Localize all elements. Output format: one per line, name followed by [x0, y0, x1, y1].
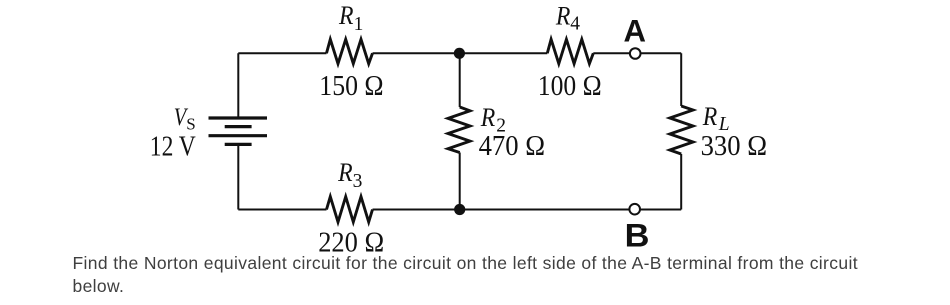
svg-text:R: R	[480, 103, 496, 132]
svg-text:R: R	[338, 1, 354, 30]
svg-text:3: 3	[353, 171, 363, 192]
svg-text:R: R	[702, 102, 718, 131]
svg-text:150 Ω: 150 Ω	[319, 70, 383, 102]
svg-text:R: R	[337, 158, 353, 187]
svg-text:1: 1	[354, 14, 364, 35]
svg-text:B: B	[625, 218, 650, 254]
svg-text:330 Ω: 330 Ω	[701, 130, 767, 162]
svg-text:470 Ω: 470 Ω	[479, 130, 545, 162]
svg-text:A: A	[623, 13, 646, 49]
svg-text:R: R	[555, 1, 571, 30]
svg-text:100 Ω: 100 Ω	[538, 70, 602, 102]
svg-text:12 V: 12 V	[150, 130, 196, 162]
svg-text:4: 4	[570, 14, 580, 35]
